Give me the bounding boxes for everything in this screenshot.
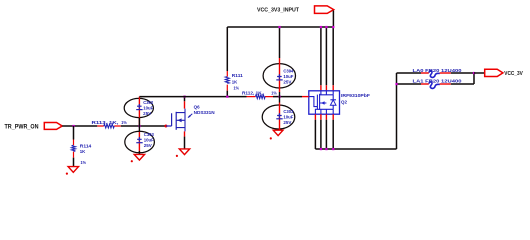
wire Q2 top pins (321, 27, 333, 85)
svg-text:25V: 25V (283, 79, 291, 84)
svg-text:1K: 1K (80, 149, 86, 155)
wire Q6 drain (184, 97, 186, 102)
wire R114 branch (73, 126, 75, 167)
junction ferrite bottom branch left (395, 83, 397, 85)
svg-text:LA1 FB20 12U400: LA1 FB20 12U400 (413, 78, 463, 83)
junction C394 at rail (278, 26, 280, 28)
junction output pin3 (325, 148, 327, 150)
svg-text:1%: 1% (234, 85, 240, 91)
transistor Q6 NDS331N (164, 109, 192, 132)
junction Q6 drain at node line (183, 96, 185, 98)
svg-text:Q6: Q6 (194, 104, 200, 110)
junction rail pin3 (332, 26, 334, 28)
resistor R111 value label (232, 73, 243, 92)
svg-text:R111: R111 (232, 73, 243, 79)
svg-text:VCC_3V3_INPUT: VCC_3V3_INPUT (257, 8, 299, 14)
resistor R114 value label (80, 144, 92, 167)
svg-text:1%: 1% (271, 91, 277, 97)
junction R111 at node line (226, 96, 228, 98)
transistor Q2 IRF9310PbF (boxed p-MOSFET) (302, 91, 340, 114)
junction output pin2 (320, 148, 322, 150)
transistor Q2 part label (341, 93, 370, 106)
wire to VCC_3V port (474, 72, 485, 74)
ground under R114 (66, 167, 79, 175)
svg-text:R114: R114 (80, 144, 92, 150)
svg-text:C303: C303 (283, 109, 294, 114)
svg-text:C393: C393 (144, 132, 155, 137)
wire main node from port to Q6 gate (62, 125, 166, 127)
ground under Q6 (176, 149, 190, 157)
svg-text:10uF: 10uF (144, 137, 154, 142)
ground under C393 (131, 154, 145, 162)
junction rail pin1 (320, 26, 322, 28)
svg-text:25V: 25V (283, 120, 291, 125)
port VCC_3V (485, 69, 503, 76)
svg-text:25V: 25V (144, 143, 152, 148)
capacitor C393 (bottom left, in ellipse) (125, 131, 155, 153)
capacitor C392 value label (143, 100, 154, 116)
wire Q6 source to ground (184, 131, 186, 136)
svg-text:R112, 1K,: R112, 1K, (242, 91, 264, 97)
resistor R113 (97, 124, 121, 128)
svg-text:C392: C392 (143, 100, 154, 105)
inductor LA0 (421, 71, 451, 78)
svg-text:1K: 1K (232, 80, 238, 86)
capacitor C303 value label (283, 109, 294, 125)
junction at R114 tap (72, 125, 74, 127)
svg-text:10uF: 10uF (143, 105, 153, 110)
svg-text:1%: 1% (81, 160, 87, 166)
port TR_PWR_ON (44, 123, 62, 130)
wire ferrite top branch (397, 72, 475, 74)
resistor R111 (225, 71, 229, 91)
svg-text:LA0 FB20 12U400: LA0 FB20 12U400 (413, 68, 463, 73)
capacitor C303 (in ellipse) (262, 97, 295, 131)
wire ferrite bottom branch (397, 73, 475, 84)
wire Q2 bottom pins (315, 114, 333, 120)
resistor R113 value label (92, 120, 128, 126)
svg-text:Q2: Q2 (341, 100, 347, 106)
wire R111 branch (226, 27, 228, 97)
transistor Q6 designator label (194, 104, 216, 116)
junction at left caps tap (138, 125, 140, 127)
svg-text:10uF: 10uF (283, 74, 293, 79)
svg-text:R113, 1K,: R113, 1K, (92, 120, 120, 126)
resistor R114 (72, 140, 76, 158)
wire output net (315, 73, 396, 149)
svg-text:C394: C394 (283, 68, 294, 73)
capacitor C392 (top left, in ellipse) (124, 97, 153, 155)
svg-text:NDS331N: NDS331N (194, 110, 216, 116)
svg-text:10uF: 10uF (283, 115, 293, 120)
wire VCC_3V3 rail (227, 26, 333, 28)
junction output pin4 (332, 148, 334, 150)
svg-text:25V: 25V (143, 111, 151, 116)
inductor LA1 (421, 82, 451, 89)
port VCC_3V3_INPUT (315, 6, 334, 13)
svg-text:TR_PWR_ON: TR_PWR_ON (5, 124, 39, 131)
svg-text:1%: 1% (121, 120, 127, 126)
ground under C303 (270, 130, 283, 139)
resistor R112 value label (242, 91, 277, 97)
svg-text:VCC_3V: VCC_3V (504, 71, 523, 77)
svg-text:IRF9310PbF: IRF9310PbF (341, 93, 370, 99)
junction caps/gate 4-way (278, 96, 280, 98)
capacitor C393 value label (144, 132, 155, 148)
wire node line (gate net) (139, 96, 302, 98)
wire port VCC_3V3_INPUT drop (332, 11, 334, 28)
capacitor C394 (in ellipse) (263, 27, 295, 97)
junction ferrite join right (473, 72, 475, 74)
junction rail pin2 (325, 26, 327, 28)
capacitor C394 value label (283, 68, 294, 84)
resistor R112 (247, 95, 274, 99)
